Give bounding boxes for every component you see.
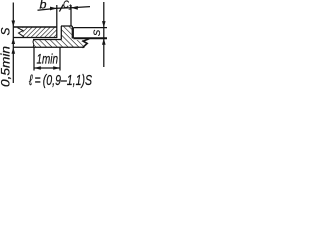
arrow of b pointing right [50, 7, 57, 11]
lower sheet (part 2) hatched strip [34, 40, 85, 47]
right vertical dimension line for right sheet thickness [103, 2, 105, 67]
extension line left for 1min dimension [33, 48, 35, 71]
right sheet left edge [72, 28, 74, 38]
svg-text:1min: 1min [37, 51, 59, 67]
svg-text:ℓ = (0,9–1,1)S: ℓ = (0,9–1,1)S [28, 72, 92, 89]
right sheet (part 3, unsectioned) top edge [73, 27, 107, 29]
extension line for C1 right boundary [70, 5, 72, 26]
upper sheet top edge [13, 26, 57, 28]
lower sheet left break edge [32, 40, 35, 48]
extension line right for 1min dimension [59, 48, 61, 71]
svg-text:S: S [92, 29, 103, 36]
boss / raised step of part 2 hatched [62, 27, 73, 41]
lower sheet top edge [33, 39, 62, 41]
right sheet bottom edge (thick) [73, 37, 107, 39]
arrow down to top of upper sheet [12, 21, 16, 28]
upper left sheet (part 1) hatched section [23, 28, 57, 38]
arrow up to bottom of upper sheet [12, 38, 16, 45]
svg-text:0,5min: 0,5min [0, 46, 13, 87]
lower sheet bottom edge + extension line to left dim [13, 46, 85, 48]
arrow up to bottom of lower sheet [12, 47, 16, 54]
upper sheet right edge + extension line to dim b [56, 5, 58, 38]
boss right face [71, 26, 73, 39]
boss left face [60, 26, 62, 40]
left vertical dimension line S / 0,5min [12, 3, 14, 84]
arrow of C1 pointing left [71, 6, 78, 10]
svg-text:b: b [40, 0, 47, 12]
lower sheet right break line [82, 39, 89, 48]
dimension line 1min [34, 67, 60, 69]
upper sheet bottom edge [13, 37, 57, 39]
svg-text:S: S [0, 27, 13, 35]
svg-text:C₁: C₁ [63, 0, 72, 11]
arrow left of 1min [34, 66, 41, 69]
dimension line b / C1 (top horizontal) [38, 7, 91, 11]
arrow right of 1min [53, 66, 60, 69]
arrow down to top of right sheet [102, 21, 106, 28]
boss top edge [61, 25, 72, 27]
upper sheet left break line [18, 28, 25, 37]
arrow up to bottom of right sheet [102, 38, 106, 45]
slash tick between b and C1 [59, 5, 63, 12]
